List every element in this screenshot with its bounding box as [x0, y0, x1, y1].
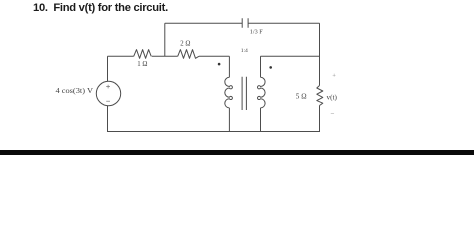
wire: bottom rail	[108, 131, 320, 133]
wire: top branch right of capacitor	[248, 22, 319, 24]
wire: R2 to transformer primary top corner	[199, 55, 230, 57]
svg-text:4 cos(3t) V: 4 cos(3t) V	[56, 87, 94, 95]
resistor R2 zigzag	[178, 50, 199, 59]
source V1: 4 cos(3t) V circle	[96, 81, 120, 105]
wire: left vertical from source bottom to bottom rail	[107, 106, 109, 132]
svg-text:−: −	[331, 110, 335, 118]
wire: right vertical from resistor to bottom rail	[319, 106, 321, 133]
transformer T1 primary dot	[218, 63, 221, 66]
wire: transformer secondary bottom lead	[260, 108, 262, 132]
problem title	[33, 2, 168, 14]
wire: left vertical from top wire to source top	[107, 56, 109, 81]
transformer T1 secondary dot	[269, 66, 272, 69]
bottom black divider bar	[0, 150, 474, 155]
wire: right vertical from top branch down to 5 ohm resistor	[319, 23, 321, 85]
wire: transformer primary bottom lead	[228, 108, 230, 132]
svg-text:2 Ω: 2 Ω	[180, 40, 190, 47]
capacitor C1 plates	[242, 18, 248, 27]
wire: capacitor branch riser at junction	[164, 23, 166, 56]
transformer T1 core lines	[242, 77, 246, 110]
svg-text:+: +	[332, 72, 336, 79]
svg-text:v(t): v(t)	[327, 93, 338, 101]
resistor R1 zigzag	[134, 50, 152, 59]
wire: top-left horizontal to R1	[108, 55, 134, 57]
source V1 minus sign	[106, 100, 110, 102]
resistor R3 vertical zigzag 5 ohm	[317, 86, 323, 106]
svg-text:1 Ω: 1 Ω	[137, 61, 147, 68]
wire: transformer primary top lead	[228, 56, 230, 77]
source V1 plus sign	[106, 85, 110, 89]
transformer T1 primary winding	[225, 77, 233, 108]
wire: between R1 and R2	[152, 55, 178, 57]
wire: top branch left of capacitor	[165, 22, 242, 24]
svg-text:1:4: 1:4	[241, 48, 248, 54]
transformer T1 secondary winding	[257, 77, 265, 108]
wire: secondary top rail	[261, 55, 320, 57]
svg-text:1/3 F: 1/3 F	[250, 28, 263, 35]
wire: transformer secondary top lead	[260, 56, 262, 77]
svg-text:5 Ω: 5 Ω	[296, 93, 307, 101]
